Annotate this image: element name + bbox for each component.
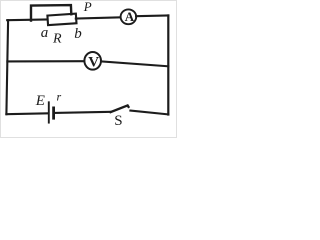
wire: top left segment: [7, 18, 48, 21]
svg-text:S: S: [114, 113, 122, 129]
svg-text:R: R: [52, 31, 62, 46]
svg-text:b: b: [74, 26, 82, 42]
battery E long plate: [48, 102, 50, 122]
svg-text:a: a: [41, 25, 49, 41]
voltmeter V circle: [84, 52, 101, 70]
svg-text:P: P: [83, 0, 92, 14]
scan frame border: [1, 1, 177, 138]
svg-text:r: r: [57, 89, 62, 103]
svg-text:V: V: [88, 55, 99, 71]
switch S blade: [111, 105, 129, 112]
wire: slider bracket from wire up and over to wiper P: [31, 5, 71, 21]
resistor R (rheostat body): [47, 14, 76, 25]
battery E short plate: [52, 108, 55, 118]
ammeter A circle: [121, 9, 137, 24]
svg-text:E: E: [35, 93, 45, 109]
wire: resistor to ammeter: [76, 17, 121, 18]
wire: bottom left segment to battery: [6, 112, 48, 115]
svg-text:A: A: [125, 9, 135, 24]
wire: ammeter to top right corner: [136, 14, 168, 17]
wire: left edge vertical: [6, 20, 8, 114]
wire: middle left segment to voltmeter: [7, 60, 84, 62]
wire: battery to switch: [55, 112, 111, 113]
wire: switch to bottom right corner: [130, 111, 168, 115]
wire: right edge vertical: [167, 16, 169, 115]
wire: voltmeter to right edge: [101, 61, 168, 66]
